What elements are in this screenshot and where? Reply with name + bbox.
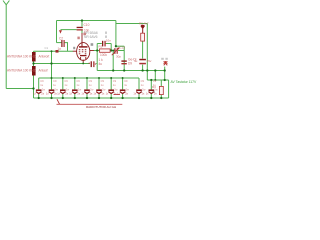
wire cathode bus: [34, 63, 90, 65]
wire line A right drop: [115, 21, 117, 47]
wire right lower horizontal: [147, 79, 168, 81]
red link between C26 and C27: [114, 94, 121, 96]
wire line A left drop: [56, 21, 58, 43]
wire rc branch top left: [97, 44, 102, 51]
resistor R1: [99, 44, 111, 57]
wire tube plate-right to resistor R1: [93, 50, 99, 52]
svg-text:2w: 2w: [126, 88, 129, 92]
potentiometer R2 with diode arrow: [139, 21, 149, 41]
svg-text:D9: D9: [128, 62, 132, 66]
svg-text:AV Tastatur 117V: AV Tastatur 117V: [171, 80, 198, 84]
junction dots: [32, 19, 166, 99]
svg-text:2w: 2w: [102, 88, 105, 92]
svg-text:2w: 2w: [154, 88, 157, 92]
svg-text:2w: 2w: [42, 88, 45, 92]
svg-text:10n: 10n: [106, 38, 111, 42]
wire antenna to coil junction: [6, 88, 33, 90]
tube V1 gray name text: [84, 31, 107, 39]
wire bottom cap column 9: [150, 80, 152, 89]
wire tuning cap column C1: [51, 51, 53, 89]
svg-text:C10: C10: [84, 23, 90, 27]
wire bottom cap column 5: [98, 78, 100, 89]
wire bus1 plate supply: [97, 70, 165, 72]
bottom capacitor C25: [93, 79, 105, 95]
bottom capacitor C23: [69, 79, 81, 95]
svg-text:2w: 2w: [78, 88, 81, 92]
bottom capacitor C24: [81, 79, 93, 95]
wire antenna down lead: [5, 5, 7, 89]
bottom capacitor C28: [133, 79, 145, 95]
bottom capacitor C29: [146, 79, 158, 95]
svg-text:2w: 2w: [90, 88, 93, 92]
svg-text:C9: C9: [124, 79, 128, 83]
wire cathode cap to rc node vertical: [96, 63, 97, 65]
antenna ANT1: [3, 1, 9, 5]
svg-text:2w: 2w: [66, 88, 69, 92]
wire grid cap to corner: [64, 43, 67, 52]
wire tube cathode stub: [82, 62, 84, 63]
wire line A to grid cap: [57, 42, 62, 44]
svg-text:35v: 35v: [147, 59, 152, 63]
inductor L2: [7, 66, 48, 76]
wire riser bus1 to bus2: [154, 71, 156, 81]
svg-text:C9: C9: [40, 79, 44, 83]
wire trimmer right to 124: [118, 50, 124, 52]
diode D1 on 124 column: [121, 58, 136, 66]
wire plate stub from line A: [81, 21, 83, 27]
capacitor C4 cathode bypass: [89, 58, 104, 67]
svg-text:C13: C13: [120, 45, 126, 49]
wire speaker pin: [164, 67, 166, 80]
svg-text:Anlauf: Anlauf: [39, 68, 48, 72]
svg-text:C9: C9: [64, 79, 68, 83]
tube V1: [77, 43, 90, 61]
wire rc branch top right: [106, 44, 112, 51]
speaker LS1: [161, 58, 168, 66]
bottom capacitor C21: [46, 79, 58, 95]
tube V1 pin number marks: [77, 33, 86, 40]
svg-text:100k: 100k: [100, 53, 107, 57]
svg-text:ANTENNA 100 KHZ: ANTENNA 100 KHZ: [7, 68, 36, 72]
wire pot column: [142, 41, 144, 70]
wire grid net horizontal: [34, 50, 74, 52]
svg-text:RADIOTUTOR.AU GH: RADIOTUTOR.AU GH: [86, 105, 116, 109]
wire bottom cap column 6: [110, 78, 112, 89]
wire 124 column: [123, 46, 125, 70]
wire trimmer left node down: [112, 51, 114, 71]
svg-text:4u: 4u: [99, 62, 103, 66]
svg-text:C2: C2: [59, 36, 63, 40]
wire node at 116 to 124: [116, 45, 124, 47]
wire line B right drop: [146, 24, 148, 81]
wire between L1 and L2: [33, 61, 35, 66]
capacitor C5 rc branch: [102, 38, 111, 46]
capacitor C2 grid cap: [58, 36, 65, 51]
svg-text:C1: C1: [45, 46, 49, 50]
wire L2 bottom to ground bus: [33, 76, 35, 99]
svg-text:C9: C9: [153, 79, 157, 83]
svg-text:C9: C9: [76, 79, 80, 83]
wire R1 right to trimmer: [110, 50, 114, 52]
capacitor C3 plate coupling cap: [77, 23, 90, 32]
wire right end riser: [168, 80, 170, 98]
wire bottom cap grounds: [39, 94, 152, 99]
svg-text:4u: 4u: [134, 59, 138, 63]
output tap arrow: [59, 30, 62, 33]
capacitor C7 on pot column: [134, 59, 152, 65]
svg-text:NR 6AV6: NR 6AV6: [84, 35, 98, 39]
bottom capacitor C22: [57, 79, 69, 95]
wire bus2 left end drop: [38, 78, 40, 89]
resistor R3 output: [152, 85, 163, 95]
trimmer capacitor C6: [112, 45, 126, 58]
svg-text:C9: C9: [101, 79, 105, 83]
svg-text:C9: C9: [89, 79, 93, 83]
tube V1 pins (dark red): [73, 33, 94, 63]
red annotation line bottom: [57, 99, 123, 109]
wire resistor R3 column: [160, 80, 162, 98]
wire ground bus: [34, 97, 169, 99]
svg-text:2w: 2w: [114, 88, 117, 92]
svg-text:Antwort: Antwort: [39, 54, 50, 58]
svg-text:2w: 2w: [55, 88, 58, 92]
svg-text:C9: C9: [141, 79, 145, 83]
wire plate cap output tap: [61, 29, 77, 31]
wire line B horizontal: [116, 23, 147, 25]
wire coil column top (L1 top to grid wire): [33, 51, 35, 52]
wire bottom cap column 3: [74, 78, 76, 89]
wire rc node down: [96, 51, 98, 71]
bottom capacitor C20: [33, 79, 45, 95]
wire line A top horizontal: [57, 20, 116, 22]
svg-text:30p: 30p: [116, 55, 121, 59]
value blob near tuning cap: [56, 50, 59, 53]
wire bottom cap column 7: [122, 78, 124, 89]
svg-text:C9: C9: [113, 79, 117, 83]
inductor L1: [7, 52, 49, 62]
wire bus2: [39, 77, 139, 79]
wire plate cap to tube plate: [81, 30, 83, 33]
svg-text:R2 4k7: R2 4k7: [139, 21, 149, 25]
wire bottom cap column 2: [62, 78, 64, 89]
tube V1 pin gray marks: [73, 43, 93, 49]
svg-text:C9: C9: [53, 79, 57, 83]
wire bus2 right end drop: [138, 78, 140, 89]
wire bottom cap column 4: [86, 78, 88, 89]
bottom capacitor C26: [106, 79, 118, 95]
bottom capacitor C27: [117, 79, 129, 95]
svg-text:2w: 2w: [142, 88, 145, 92]
svg-text:ANTENNA 100 KHZ: ANTENNA 100 KHZ: [7, 54, 36, 58]
